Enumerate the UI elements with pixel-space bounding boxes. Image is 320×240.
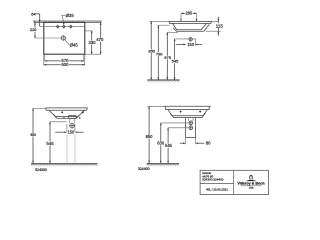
- label O45 leader: [65, 40, 69, 45]
- dim 570: [45, 60, 84, 62]
- fixing diamond left: [61, 111, 63, 113]
- drain circle O45: [61, 36, 65, 40]
- dim line 630: [161, 122, 188, 124]
- bowl lower line: [54, 114, 80, 118]
- rim band underside front: [46, 108, 88, 110]
- svg-text:975: 975: [164, 55, 171, 60]
- drain circle side: [189, 38, 192, 41]
- dim 150 front: [66, 124, 68, 132]
- bottom reference extension: [85, 53, 102, 55]
- bracket inner pipe: [187, 118, 189, 121]
- bowl taper 2: [168, 110, 207, 116]
- mounting bracket: [186, 118, 196, 138]
- dim 150: [195, 39, 197, 46]
- drain centre line: [175, 38, 196, 40]
- svg-text:80: 80: [206, 141, 211, 146]
- fixing diamond left 2: [180, 110, 182, 112]
- fixing diamond right: [82, 111, 84, 113]
- tap hole diamond center: [63, 25, 65, 28]
- svg-text:220: 220: [30, 27, 37, 32]
- svg-text:850: 850: [31, 133, 37, 137]
- basin side profile top line: [169, 20, 212, 22]
- drain circle front: [70, 124, 74, 128]
- svg-text:324400: 324400: [138, 167, 150, 171]
- bowl outline front: [49, 110, 85, 116]
- bowl bottom outer 2: [170, 113, 205, 118]
- dim 115: [206, 30, 220, 32]
- svg-text:630: 630: [157, 141, 165, 146]
- rim band underside 2: [165, 106, 209, 109]
- dim line 675: [167, 31, 178, 33]
- svg-text:790: 790: [156, 51, 163, 56]
- svg-text:Villeroy & Boch: Villeroy & Boch: [237, 182, 265, 186]
- dim 330: [85, 30, 93, 32]
- dim 600: [44, 64, 85, 66]
- dim line 545 front: [50, 121, 67, 123]
- V&B logo icon: [246, 180, 257, 181]
- tap hole line: [45, 26, 85, 28]
- svg-text:850: 850: [148, 48, 155, 53]
- basin outline (600x470 plan): [44, 22, 85, 54]
- svg-text:330: 330: [88, 40, 96, 45]
- dim line 850 side: [148, 106, 150, 163]
- title block divider vertical: [233, 170, 235, 194]
- svg-text:280: 280: [185, 11, 193, 16]
- bolt circle lower: [189, 126, 193, 130]
- bolt circle upper: [189, 121, 193, 125]
- small arrow left on bowl bottom: [63, 117, 65, 119]
- svg-text:470: 470: [96, 37, 104, 42]
- svg-text:115: 115: [216, 24, 224, 29]
- svg-text:545: 545: [172, 59, 179, 64]
- dim 470: [100, 22, 102, 54]
- svg-text:4SL / 29.06.2021: 4SL / 29.06.2021: [206, 187, 228, 191]
- dim line 790: [158, 24, 169, 26]
- dim line 850: [150, 21, 152, 80]
- dim 80: [185, 138, 187, 145]
- rim extension line: [147, 105, 164, 107]
- label O35 leader: [61, 14, 65, 16]
- svg-text:524300 324400: 524300 324400: [202, 178, 223, 182]
- outlet pipe stubs: [69, 119, 71, 124]
- dim line 850 front: [33, 107, 45, 109]
- tap hole diamond right: [70, 25, 72, 28]
- svg-text:Ø35: Ø35: [66, 13, 75, 18]
- bowl taper sides and bottom: [173, 23, 207, 29]
- basin side profile 2 top line: [164, 105, 211, 107]
- svg-text:545: 545: [165, 143, 173, 148]
- drain centre extension: [35, 37, 61, 39]
- svg-text:850: 850: [146, 134, 154, 139]
- tap hole diamond left: [57, 25, 59, 28]
- dim line 545: [174, 39, 176, 80]
- bowl bottom outer line: [173, 24, 209, 31]
- extension lines for 570/600: [43, 54, 45, 65]
- small arrow right on bowl bottom: [79, 117, 81, 119]
- dim 220: [34, 22, 36, 38]
- dim line 545 side: [168, 127, 188, 129]
- dim 280: [181, 12, 197, 14]
- svg-text:524300: 524300: [35, 168, 47, 172]
- svg-text:Ø45: Ø45: [70, 43, 79, 48]
- title block frame: [200, 170, 268, 194]
- title block divider horizontal: [200, 182, 234, 184]
- rim band underside: [169, 21, 211, 23]
- pipe hidden lines: [66, 135, 68, 164]
- overflow rectangle: [68, 116, 76, 119]
- floor line front view: [31, 163, 98, 165]
- svg-text:545: 545: [46, 141, 54, 146]
- svg-text:600: 600: [61, 62, 69, 67]
- floor line (wall view): [147, 79, 179, 81]
- rim lines front: [45, 107, 87, 109]
- wall band: [34, 20, 101, 22]
- svg-text:150: 150: [67, 130, 75, 135]
- floor line side view: [147, 163, 179, 165]
- svg-text:150: 150: [187, 42, 195, 47]
- rim extension line: [150, 20, 219, 22]
- fixing diamond right 2: [199, 110, 201, 112]
